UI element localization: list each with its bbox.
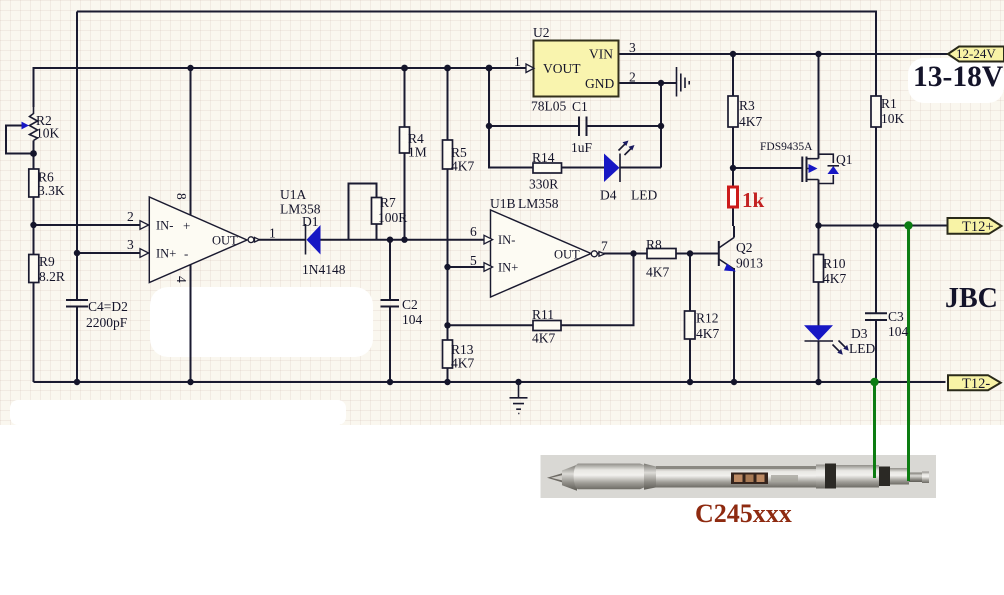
junction (733,54) [730, 51, 736, 57]
wire V2 signal column [76, 12, 78, 383]
junction (77,253) [74, 250, 80, 256]
svg-text:U1A: U1A [280, 187, 306, 202]
wire VOUT drop column [489, 68, 533, 168]
wire U1A out to D1 [259, 239, 306, 241]
svg-text:4K7: 4K7 [646, 265, 669, 280]
net flag 12-24V [948, 47, 1004, 62]
op-amp U1A [140, 197, 260, 283]
svg-text:4: 4 [174, 276, 189, 283]
svg-text:LED: LED [631, 188, 657, 203]
wire U1A pin8 [190, 68, 192, 215]
svg-text:R10: R10 [823, 256, 846, 271]
wire bottom rail [34, 381, 946, 383]
junction (690,382) [687, 379, 693, 385]
svg-text:R14: R14 [532, 150, 555, 165]
wire U2 gnd pin [619, 83, 677, 168]
wire green T12+ lead [907, 226, 910, 482]
svg-text:U1B: U1B [490, 196, 516, 211]
svg-text:4K7: 4K7 [451, 159, 474, 174]
svg-text:4K7: 4K7 [451, 356, 474, 371]
LED D3 [804, 325, 849, 355]
capacitor C2 [381, 300, 400, 307]
svg-text:12-24V: 12-24V [956, 46, 996, 61]
wire 5V rail H2 [34, 68, 527, 107]
capacitor C3 [865, 313, 887, 320]
wire +V rail H3 [619, 53, 949, 55]
svg-text:78L05: 78L05 [531, 99, 566, 114]
svg-text:OUT: OUT [554, 248, 580, 262]
junction (818.5,54) [815, 51, 821, 57]
junction (77,382) [74, 379, 80, 385]
white patch under U1A [150, 287, 373, 357]
svg-text:9013: 9013 [736, 256, 763, 271]
junction (633.5,253.5) [630, 250, 636, 256]
svg-text:100R: 100R [378, 210, 407, 225]
wire U1B pin5 [448, 266, 485, 268]
wire R10-D3 column [818, 226, 820, 383]
red 1k suggested resistor [729, 187, 738, 207]
svg-text:2: 2 [629, 70, 636, 85]
resistor R2 potentiometer zigzag [22, 107, 38, 141]
svg-text:GND: GND [585, 76, 614, 91]
svg-text:10K: 10K [36, 126, 60, 141]
junction (404.5,68) [401, 65, 408, 72]
junction (661,83) [658, 80, 664, 86]
svg-text:T12-: T12- [962, 376, 990, 392]
ground symbol bottom [510, 382, 528, 414]
svg-text:2: 2 [127, 209, 134, 224]
resistor R7 [372, 198, 382, 225]
resistor R4 [400, 127, 410, 153]
wire green T12+ lead over photo [907, 455, 910, 481]
LED D4 [604, 141, 635, 183]
svg-text:IN-: IN- [498, 233, 515, 247]
wire green T12- lead [873, 382, 876, 478]
svg-text:VIN: VIN [589, 47, 613, 62]
ground symbol near U2 [677, 67, 690, 97]
resistor R11 [533, 321, 561, 331]
svg-text:R8: R8 [646, 237, 662, 252]
resistor R6 [29, 169, 39, 197]
net flag T12+ [948, 218, 1002, 234]
svg-text:104: 104 [888, 324, 909, 339]
junction (447.5,325.3) [444, 322, 450, 328]
svg-text:8.2R: 8.2R [39, 269, 65, 284]
wire R8 to Q2 base [676, 253, 719, 255]
wire R7 bottom stub [376, 224, 378, 240]
junction (733,168) [730, 165, 736, 171]
svg-text:8: 8 [174, 193, 189, 200]
svg-text:1uF: 1uF [571, 140, 593, 155]
svg-text:C2: C2 [402, 297, 418, 312]
junction (33.5,225) [30, 222, 36, 228]
junction (518.5,382) [515, 379, 521, 385]
wire R7 loop [349, 184, 377, 240]
wire R1-C3 column [875, 127, 877, 382]
svg-text:1N4148: 1N4148 [302, 262, 346, 277]
resistor R9 [29, 255, 39, 283]
svg-text:C245xxx: C245xxx [695, 499, 792, 528]
svg-text:R11: R11 [532, 307, 554, 322]
svg-text:U2: U2 [533, 25, 550, 40]
wire R5-R13 column [447, 68, 449, 382]
wire U1A pin3 [77, 252, 140, 254]
junction (734,382) [731, 379, 737, 385]
junction (33.5,153.5) [30, 150, 37, 157]
wire Q2 emitter column [733, 268, 735, 382]
capacitor C4 [66, 300, 88, 307]
junction (390,239.7) [387, 237, 393, 243]
svg-text:D4: D4 [600, 188, 617, 203]
resistor R13 [443, 340, 453, 368]
junction (404.5,239.7) [401, 237, 407, 243]
wire C2 column [389, 240, 391, 382]
wire R3 column [732, 54, 734, 226]
svg-text:LED: LED [849, 341, 875, 356]
junction (447.5,68) [444, 65, 451, 72]
svg-text:OUT: OUT [212, 234, 238, 248]
wire R12 column [689, 254, 691, 383]
resistor R10 [814, 255, 824, 283]
wire D1 anode to U1B pin6 [320, 239, 484, 241]
junction (447.5,382) [444, 379, 450, 385]
resistor R3 [728, 96, 738, 127]
svg-text:IN+: IN+ [498, 261, 518, 275]
green junction dot T12- [870, 378, 878, 386]
svg-text:3: 3 [629, 40, 636, 55]
svg-text:4K7: 4K7 [532, 331, 555, 346]
resistor R1 [871, 96, 881, 127]
wire T12+ rail [819, 225, 948, 227]
junction (489,126) [486, 123, 492, 129]
svg-text:VOUT: VOUT [543, 61, 581, 76]
resistor R14 [533, 163, 562, 173]
svg-text:5: 5 [470, 253, 477, 268]
svg-text:D3: D3 [851, 326, 868, 341]
svg-text:1M: 1M [408, 145, 427, 160]
junction (390,382) [387, 379, 393, 385]
svg-text:R7: R7 [380, 195, 396, 210]
svg-text:JBC: JBC [945, 283, 998, 314]
svg-text:C3: C3 [888, 309, 904, 324]
svg-text:C1: C1 [572, 99, 588, 114]
svg-text:104: 104 [402, 312, 423, 327]
junction (818.5,382) [815, 379, 821, 385]
svg-text:FDS9435A: FDS9435A [760, 141, 813, 153]
junction (447.5,267) [444, 264, 450, 270]
svg-text:1: 1 [514, 54, 521, 69]
junction (190.5,382) [187, 379, 193, 385]
svg-text:IN+: IN+ [156, 247, 176, 261]
capacitor C1 [579, 117, 587, 137]
svg-text:T12+: T12+ [962, 219, 994, 235]
wire V1 left R2-R6-R9 column [33, 141, 35, 383]
resistor R12 [685, 311, 696, 339]
svg-text:6: 6 [470, 224, 477, 239]
soldering iron photo [541, 455, 937, 498]
svg-text:13-18V: 13-18V [913, 61, 1003, 93]
wire R4 column [404, 68, 406, 240]
wire C1 row [489, 125, 661, 127]
junction (489,68) [486, 65, 493, 72]
junction (690,253.5) [687, 250, 693, 256]
wire D4 cathode to right column [562, 167, 662, 169]
wire U1A pin2 [34, 224, 141, 226]
svg-text:D1: D1 [302, 214, 319, 229]
net flag T12- [948, 375, 1001, 390]
wire U1B out to R8 [597, 253, 647, 255]
svg-text:2200pF: 2200pF [86, 315, 128, 330]
voltage regulator U2 78L05 [526, 41, 619, 97]
resistor R8 [647, 249, 676, 259]
junction (190.5,68) [187, 65, 193, 71]
op-amp U1B [484, 210, 605, 297]
wire pot wiper loop [6, 126, 34, 154]
wire top rail H1 [77, 12, 876, 97]
svg-text:Q2: Q2 [736, 240, 753, 255]
svg-text:LM358: LM358 [518, 196, 559, 211]
transistor Q2 9013 [719, 226, 736, 272]
svg-text:C4=D2: C4=D2 [88, 299, 128, 314]
svg-text:IN-: IN- [156, 219, 173, 233]
svg-text:4K7: 4K7 [823, 271, 846, 286]
svg-text:-: - [184, 246, 188, 261]
svg-text:3.3K: 3.3K [38, 183, 65, 198]
svg-text:R12: R12 [696, 311, 719, 326]
svg-text:1k: 1k [742, 188, 765, 212]
svg-text:7: 7 [601, 239, 608, 254]
white patch bottom band left [10, 400, 346, 425]
svg-text:4K7: 4K7 [739, 114, 762, 129]
diode D1 1N4148 [306, 224, 321, 255]
green junction dot T12+ [904, 221, 912, 229]
svg-text:R1: R1 [881, 96, 897, 111]
resistor R5 [443, 140, 453, 169]
white patch behind 13-18V [908, 58, 1004, 103]
junction (876,225.5) [873, 222, 879, 228]
svg-text:R9: R9 [39, 254, 55, 269]
mosfet Q1 FDS9435A [802, 154, 839, 183]
wire green T12- lead over photo [873, 455, 876, 478]
junction (818.5,225.5) [815, 222, 821, 228]
svg-text:+: + [183, 218, 190, 233]
wire R3 to Q1 gate [733, 167, 802, 169]
junction (661,126) [658, 123, 664, 129]
svg-text:Q1: Q1 [836, 152, 853, 167]
svg-text:4K7: 4K7 [696, 326, 719, 341]
svg-text:R3: R3 [739, 98, 755, 113]
svg-text:330R: 330R [529, 177, 558, 192]
svg-text:3: 3 [127, 237, 134, 252]
svg-text:10K: 10K [881, 111, 905, 126]
wire R11 link [448, 254, 634, 326]
wire Q1 drain column [818, 54, 820, 226]
svg-text:1: 1 [269, 226, 276, 241]
wire U1A pin4 [190, 264, 192, 382]
